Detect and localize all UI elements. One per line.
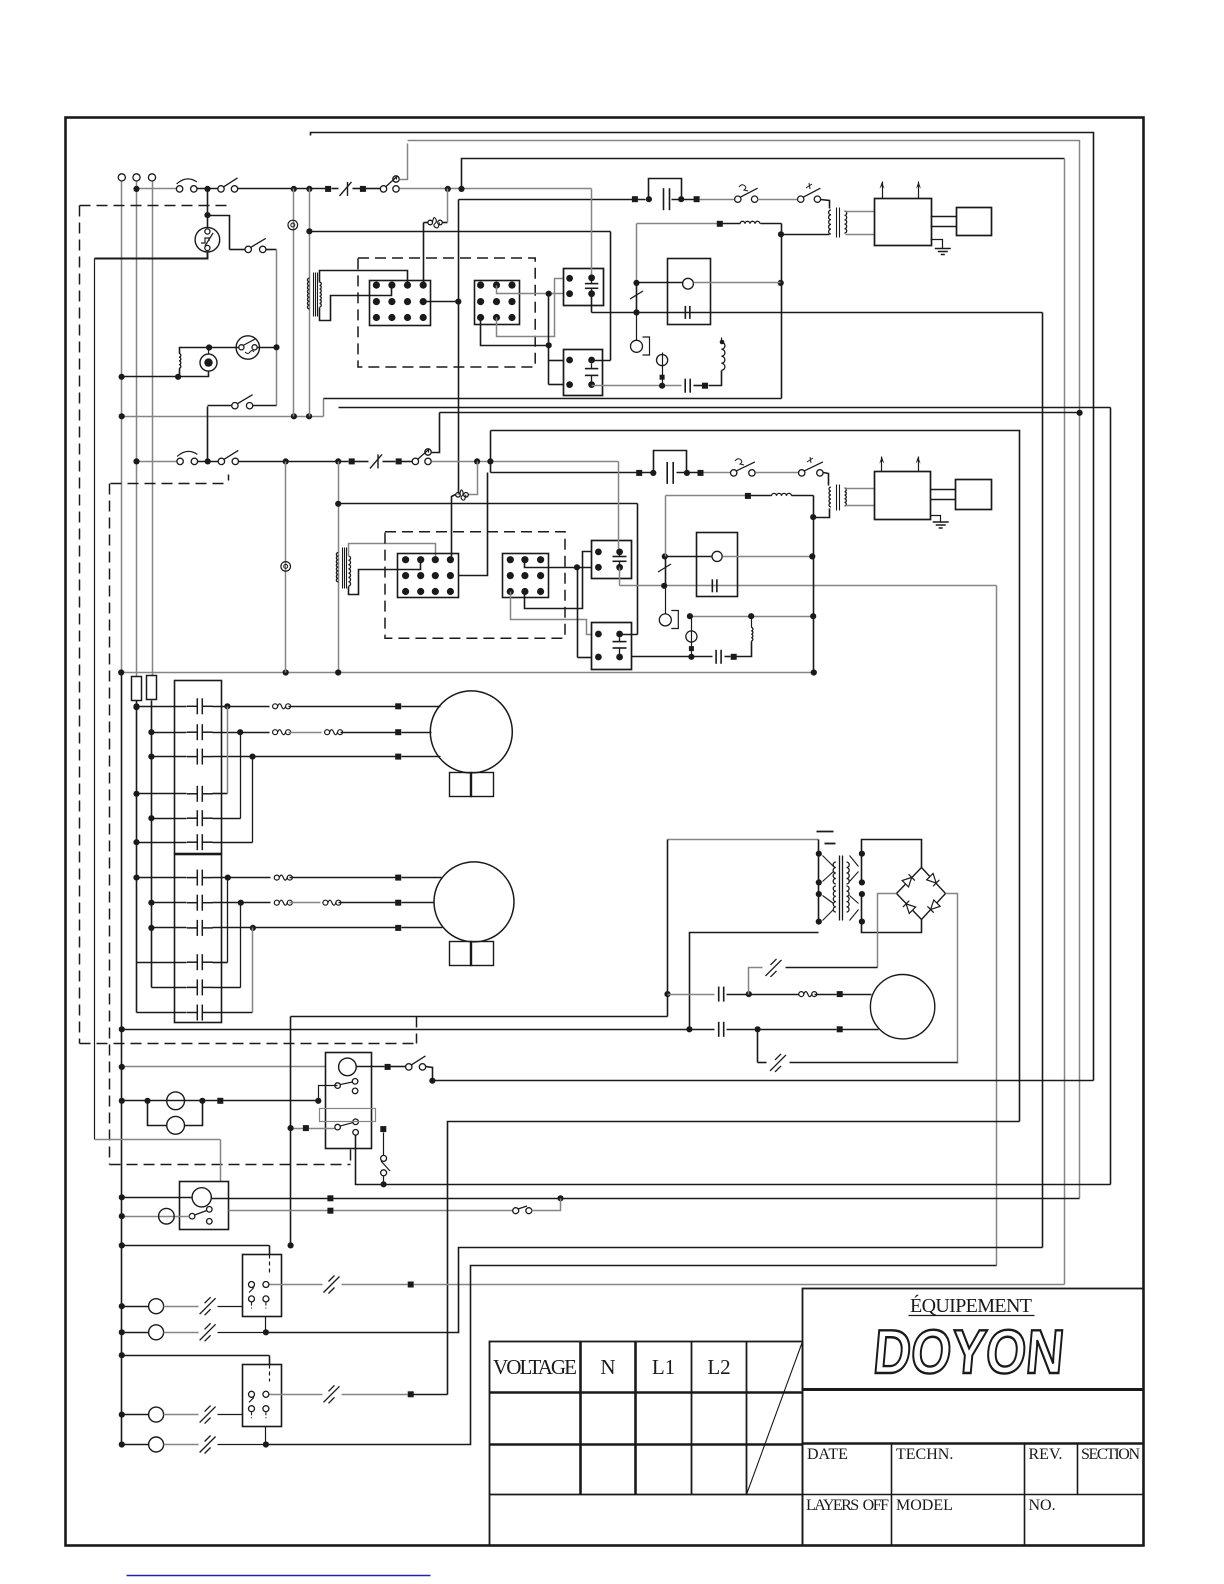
wire CB output (212, 1198, 1080, 1200)
terminal square (837, 1026, 843, 1032)
fuse FU2 (147, 676, 157, 700)
oven2 spark plug box (956, 480, 992, 510)
wire CB output grey (229, 1210, 513, 1212)
terminal L2 (148, 174, 155, 181)
wire grey to timer contact2 (291, 1128, 335, 1130)
oven2 ignition feed wire (491, 472, 651, 474)
oven1 capacitor C1 (663, 188, 665, 210)
group1 lamp B (122, 1332, 149, 1334)
voltage table outline (490, 1342, 803, 1546)
wire choke line grey (637, 223, 718, 225)
group2 lamp A (122, 1414, 149, 1416)
group1 output wire (270, 1284, 323, 1286)
wire riser to coil (737, 642, 752, 657)
wire transformer return drop (690, 933, 819, 1030)
terminal square (717, 221, 723, 227)
capacitor bypass loop (654, 451, 687, 473)
svg-text:L2: L2 (707, 1355, 730, 1379)
wire choke line grey (666, 495, 746, 497)
oven1 terminal matrix X1 (4x3) (370, 281, 431, 326)
bus wire top 3 (462, 159, 1065, 189)
wire through module (637, 282, 683, 284)
diode D2 (927, 873, 940, 886)
bus wire y1121 (448, 1122, 1020, 1395)
terminal L1 (118, 174, 125, 181)
wire contactor feed drop x338 (338, 462, 340, 673)
oven1 switch S3 (230, 249, 246, 251)
interlock switch vertical (383, 1133, 385, 1156)
dashed enclosure outer (80, 205, 230, 207)
oven1 aux lamp (662, 353, 664, 386)
diode D1 (902, 874, 915, 887)
wire riser to CB line (532, 1199, 561, 1211)
overload OL4b (323, 900, 328, 905)
node oven1 junction (204, 186, 210, 192)
terminal square (385, 1064, 391, 1070)
wire oven1 main (238, 188, 326, 190)
terminal square (632, 196, 638, 202)
oven2 ignition transformer T4 (829, 487, 831, 507)
oven1 flame sensor contact (636, 283, 638, 313)
wire grey drop (636, 224, 638, 283)
overload OL2b (325, 730, 330, 735)
wire timer feed grey (122, 1066, 326, 1068)
wire oven2 main (239, 461, 349, 463)
svg-text:LAYERS OFF: LAYERS OFF (806, 1497, 889, 1514)
wire grey y616 (690, 616, 814, 618)
group1 relay bottom drop (265, 1317, 267, 1333)
wire secondary to bridge bottom (862, 920, 922, 933)
wires M2 outputs (213, 877, 271, 879)
motor2 terminal box (450, 942, 472, 966)
diode D4 (927, 900, 940, 913)
oven2 capacitor C2 (666, 462, 668, 484)
wires M1 feeds (137, 706, 187, 708)
wire (402, 461, 413, 463)
bus wire top 2 grey (408, 141, 1080, 1199)
overload OL4a (274, 900, 279, 905)
wire to contactor coil line (310, 231, 611, 233)
ground oven2 (931, 516, 941, 523)
oven1 main supply wire (137, 188, 180, 190)
contactor M1 contacts (187, 705, 198, 707)
wire transformer primary feed (309, 189, 311, 417)
oven1 flame switch FS1 (735, 196, 741, 202)
oven1 switch S2 (218, 186, 224, 192)
oven1 door switch S1 (176, 186, 182, 192)
group1 lamp A (122, 1306, 149, 1308)
wire (353, 188, 361, 190)
wire K2B right to coil riser (620, 634, 638, 636)
wire N vertical feed (136, 182, 138, 677)
wire buzzer bottom return (122, 372, 209, 377)
wires M2 feeds (137, 877, 187, 879)
lamp LP1 (167, 1092, 185, 1110)
module circle (683, 278, 694, 289)
timer switch S6 (406, 1064, 412, 1070)
wire x93 bottom link grey (95, 1139, 221, 1141)
oven1 terminal matrix X2 (3x3) (475, 281, 520, 325)
bus wire top 1 (311, 133, 1094, 1081)
wire T2 secondary grey (846, 211, 875, 213)
terminal square (837, 991, 843, 997)
terminal square (636, 470, 642, 476)
rectifier bridge D1-D4 (897, 868, 946, 920)
motor MT1 (430, 691, 512, 773)
bus wire y1184 (384, 1184, 1111, 1186)
wire long vertical into fuse (458, 494, 460, 495)
wire grey drop (665, 496, 667, 557)
title block row line 3 (803, 1494, 1144, 1496)
bus wire y430 segment (491, 431, 1020, 1122)
wire T1 secondary top (320, 271, 408, 286)
title block outline (803, 1289, 1144, 1546)
wire bus riser jog (323, 399, 325, 417)
oven1 pilot indicator (288, 220, 298, 230)
group1 lampB riser (266, 1248, 1043, 1333)
group2 lamp B (122, 1444, 149, 1446)
oven2 control transformer T3 (336, 553, 338, 583)
transformer T5 primary terminals (818, 840, 820, 922)
wire grey (758, 199, 798, 201)
wire fuse drop to X1 (423, 223, 425, 286)
wire to ignition transformer (824, 473, 829, 486)
wire grey (756, 472, 799, 474)
lamp LP2 (167, 1116, 185, 1134)
winding link wires M2 (227, 878, 229, 963)
oven1 spark plug box (957, 208, 992, 236)
wire (383, 461, 396, 463)
svg-text:REV.: REV. (1029, 1446, 1063, 1463)
wire X2 bottom to relay K1B (481, 318, 549, 346)
oven2 relay K2B (592, 623, 632, 670)
svg-text:VOLTAGE: VOLTAGE (493, 1355, 577, 1379)
terminal N (133, 174, 140, 181)
oven1 selector switch SW (236, 336, 259, 359)
bus wire y412 segment (440, 412, 1081, 414)
group2 relay box (243, 1365, 282, 1427)
wire oven2 main grey (432, 461, 619, 463)
ground oven1 (931, 240, 943, 249)
title block row line logo bottom (803, 1388, 1144, 1391)
capacitor C3 (718, 987, 720, 1002)
transformer T5 secondary terminals (861, 854, 863, 883)
timer contact 1 (335, 1083, 341, 1089)
wire thermostat bottom (95, 253, 208, 259)
wire main to K1A grey drop (591, 189, 593, 275)
svg-text:L1: L1 (652, 1355, 675, 1379)
wire (366, 188, 381, 190)
wire through module (665, 556, 713, 558)
terminal square (327, 1195, 333, 1201)
bus wire y407 right segment (339, 407, 1111, 409)
terminal square feed (380, 1126, 386, 1132)
fuse FU1 (132, 677, 142, 701)
wire to selector drop (266, 249, 277, 251)
group2 output wire (270, 1394, 323, 1396)
oven2 door switch S4 (177, 458, 183, 464)
motor1 terminal squares (395, 703, 401, 709)
remote switch S7 (513, 1208, 519, 1214)
oven2 relay contact K2 (412, 458, 418, 464)
nc contact (770, 1055, 786, 1071)
module capacitor (684, 306, 686, 319)
wire X2 to relay K1A left (497, 286, 564, 294)
svg-text:N: N (600, 1355, 615, 1379)
title block column dividers (891, 1444, 893, 1546)
oven2 flame sensor contact (665, 557, 667, 586)
oven1 ignition transformer T2 (829, 210, 831, 234)
oven1 flame module box (668, 259, 711, 325)
oven2 switch S5 (218, 458, 224, 464)
terminal square (327, 1208, 333, 1214)
coupling capacitor (684, 379, 686, 393)
wire (208, 216, 230, 250)
motor1 terminal box (450, 773, 472, 797)
wire to T2 primary bottom (782, 234, 830, 236)
wire to grey bus riser (396, 176, 398, 180)
group2 relay bottom drop (265, 1427, 267, 1445)
wire contact1 link (319, 1086, 338, 1101)
bus wire oven1 return (324, 398, 782, 400)
wire to ignition transformer (821, 200, 830, 209)
bus wire y1080 (433, 1080, 1094, 1082)
CB switch (189, 1213, 195, 1219)
electrode arrows (882, 182, 884, 199)
timer box TM1 (326, 1053, 372, 1149)
oven1 relay K1B (564, 350, 603, 396)
module circle (712, 551, 722, 561)
wire grey to transformer T5 (668, 839, 819, 841)
coupling capacitor (715, 650, 717, 664)
oven2 aux lamp (691, 617, 693, 657)
motor MT2 (434, 862, 514, 942)
svg-text:TECHN.: TECHN. (896, 1446, 953, 1463)
wire secondary to bridge top (862, 840, 922, 868)
wire L2 vertical feed (152, 182, 154, 676)
dc motor field wire (122, 1029, 715, 1031)
oven2 choke L2 (751, 495, 772, 497)
wire transformer feed drop (667, 840, 669, 1017)
lamp LP3 feed (122, 1216, 190, 1218)
dashed enclosure inner (228, 475, 230, 484)
wire relay feed vertical (548, 294, 550, 385)
oven2 terminal matrix X3 (4x3) (398, 554, 459, 598)
lamp LP3 (159, 1208, 175, 1224)
terminal square (698, 470, 704, 476)
wire K1B bottom grey out (591, 385, 593, 386)
terminal square (702, 383, 708, 389)
wire X1 r2c4 to long vertical (424, 301, 459, 303)
capacitor bypass loop (649, 179, 682, 200)
wire K2A bottom grey drop (619, 568, 621, 586)
CB circle (192, 1188, 211, 1207)
oven2 fuse F4 squiggle (456, 493, 461, 498)
oven1 ignition module U1 (875, 199, 932, 246)
bus wire y405 left segment with switch (208, 405, 232, 407)
oven2 flame sense wire grey (620, 585, 997, 587)
wire L1 vertical feed (121, 182, 123, 673)
wire timer output (357, 1066, 385, 1068)
module capacitor (711, 579, 713, 592)
terminal square (349, 458, 355, 464)
oven1 ignition switch IS1 (798, 196, 804, 202)
oven2 pilot indicator (285, 462, 287, 673)
timer aux rectangle grey (320, 1109, 376, 1122)
overload OL5 (752, 994, 802, 996)
oven1 connector dashed box (358, 258, 535, 367)
terminal square (303, 1125, 309, 1131)
wire (198, 461, 219, 463)
wire left drop (94, 259, 96, 1140)
oven1 fuse F1 (340, 182, 352, 196)
wire main to K2A grey drop (618, 462, 620, 549)
logo DOYON (871, 1318, 1067, 1387)
terminal square (731, 654, 737, 660)
contactor M1 box (175, 681, 222, 854)
wire grey (700, 199, 735, 201)
wire X4 to relay K2A (525, 560, 592, 568)
overload OL3 (274, 875, 279, 880)
wire grey jog to fuse (469, 462, 478, 495)
overload OL2a (273, 730, 278, 735)
timer contact 2 (335, 1124, 341, 1130)
group2 feed wire (122, 1355, 270, 1357)
terminal square (745, 493, 751, 499)
node oven2 junction (205, 458, 211, 464)
long vertical from ignition feed (458, 200, 460, 494)
wire fuse to main grey (447, 189, 449, 223)
wire fuse to X3 (452, 495, 456, 560)
oven1 fuse F2 squiggle (424, 222, 429, 224)
svg-text:SECTION: SECTION (1081, 1446, 1140, 1463)
oven2 sense coil (751, 627, 753, 641)
wire timer contact2 down (356, 1136, 384, 1185)
wire to T4 primary bottom (814, 509, 830, 518)
oven2 relay K2A (592, 541, 632, 579)
nc contact branch (749, 968, 763, 995)
wire K2B output (632, 656, 713, 658)
wire CB feed (122, 1197, 193, 1199)
wire junction drop (207, 189, 209, 228)
group1 relay box (243, 1255, 282, 1317)
contactor M2 box (175, 855, 222, 1023)
oven1 control transformer T1 (307, 278, 309, 309)
electrode arrows (881, 457, 883, 472)
wire T4 secondary grey (846, 488, 875, 490)
group2 output continues (414, 1394, 448, 1396)
bus wire right drop x1110 (1110, 408, 1112, 1185)
group2 lampB riser (266, 1266, 997, 1445)
oven1 relay K1A (564, 269, 604, 306)
oven1 thermostat TH1 (195, 227, 220, 252)
wire riser to coil (709, 371, 722, 386)
voltage table columns (579, 1342, 582, 1495)
terminal square (325, 186, 331, 192)
oven2 connector dashed box (385, 532, 565, 638)
wires M1 outputs (213, 706, 270, 708)
oven1 flame sense wire (592, 312, 1043, 314)
title block row line 2 (803, 1442, 1144, 1444)
terminal square (396, 458, 402, 464)
transformer T5 windings (823, 856, 834, 867)
bus wire right grey drop (1064, 159, 1066, 1285)
oven2 main supply wire (137, 461, 181, 463)
wire X2 c2 bottom grey riser (497, 279, 564, 337)
wire X4 c1 grey to K2B (511, 592, 592, 635)
bus drop right grey x996 (996, 586, 998, 1266)
wire vertical x813 (813, 496, 815, 673)
terminal square (694, 196, 700, 202)
timer motor circle (339, 1058, 357, 1076)
voltage table diagonal (747, 1342, 803, 1495)
wire X4 c2 riser grey (525, 552, 592, 609)
bus drop right x1042 (1042, 313, 1044, 1248)
oven2 coil feed wire (339, 503, 638, 505)
wire vertical x781 (781, 224, 783, 399)
oven1 relay contact K1 (380, 186, 386, 192)
motor MT3 (870, 975, 934, 1039)
dc motor armature wire (668, 994, 715, 996)
wire oven1 ignition feed (459, 199, 646, 201)
wire riser x490 (490, 431, 492, 473)
group1 output square (342, 1284, 408, 1286)
terminal square (360, 186, 366, 192)
svg-text:NO.: NO. (1029, 1497, 1056, 1514)
wire to bus riser (432, 413, 440, 453)
svg-text:ÉQUIPEMENT: ÉQUIPEMENT (910, 1294, 1032, 1317)
wire y1016 link (291, 1016, 668, 1018)
group2 output square (342, 1394, 408, 1396)
motor2 terminal squares (395, 875, 401, 881)
wire T3 secondary bottom (349, 560, 421, 595)
wire riser to X3 r2c4 (459, 473, 488, 576)
drawing border frame (66, 118, 1144, 1546)
oven1 choke L1 (723, 223, 741, 225)
oven2 ignition switch IS2 (799, 470, 805, 476)
oven1 sense coil (721, 342, 725, 370)
wire pilot drop grey (293, 189, 295, 417)
winding link wires M1 (227, 707, 229, 794)
contactor M2 contacts (187, 877, 198, 879)
oven1 sense lamp (636, 313, 638, 341)
oven2 fuse F3 (370, 454, 382, 468)
diode D3 (903, 901, 916, 914)
transformer T5 tap marks (817, 831, 834, 833)
wire lower nc contact (757, 1030, 759, 1063)
group1 relay contacts (269, 1255, 271, 1273)
terminal square (217, 1098, 223, 1104)
wire grey (704, 472, 731, 474)
wire x290 vertical (290, 1017, 292, 1246)
wires module to spark box (931, 216, 957, 218)
oven2 flame module box (697, 533, 738, 597)
wire relay feed vertical (577, 568, 579, 658)
wire mid grey bus (122, 416, 324, 418)
wire bridge right vertex (946, 894, 958, 1064)
blue reference line (127, 1575, 431, 1577)
horizontal bus wire y672 (122, 672, 814, 674)
wire T3 secondary top (349, 544, 436, 560)
wire K1B right to coil riser (592, 360, 611, 362)
wire K1A right bottom drop (591, 294, 593, 313)
oven2 ignition module U2 (875, 472, 931, 520)
oven1 buzzer BZ (200, 354, 217, 371)
wire (355, 461, 369, 463)
voltage table rows (490, 1391, 803, 1394)
wires module to spark box (931, 489, 956, 491)
control box CB (180, 1182, 229, 1230)
